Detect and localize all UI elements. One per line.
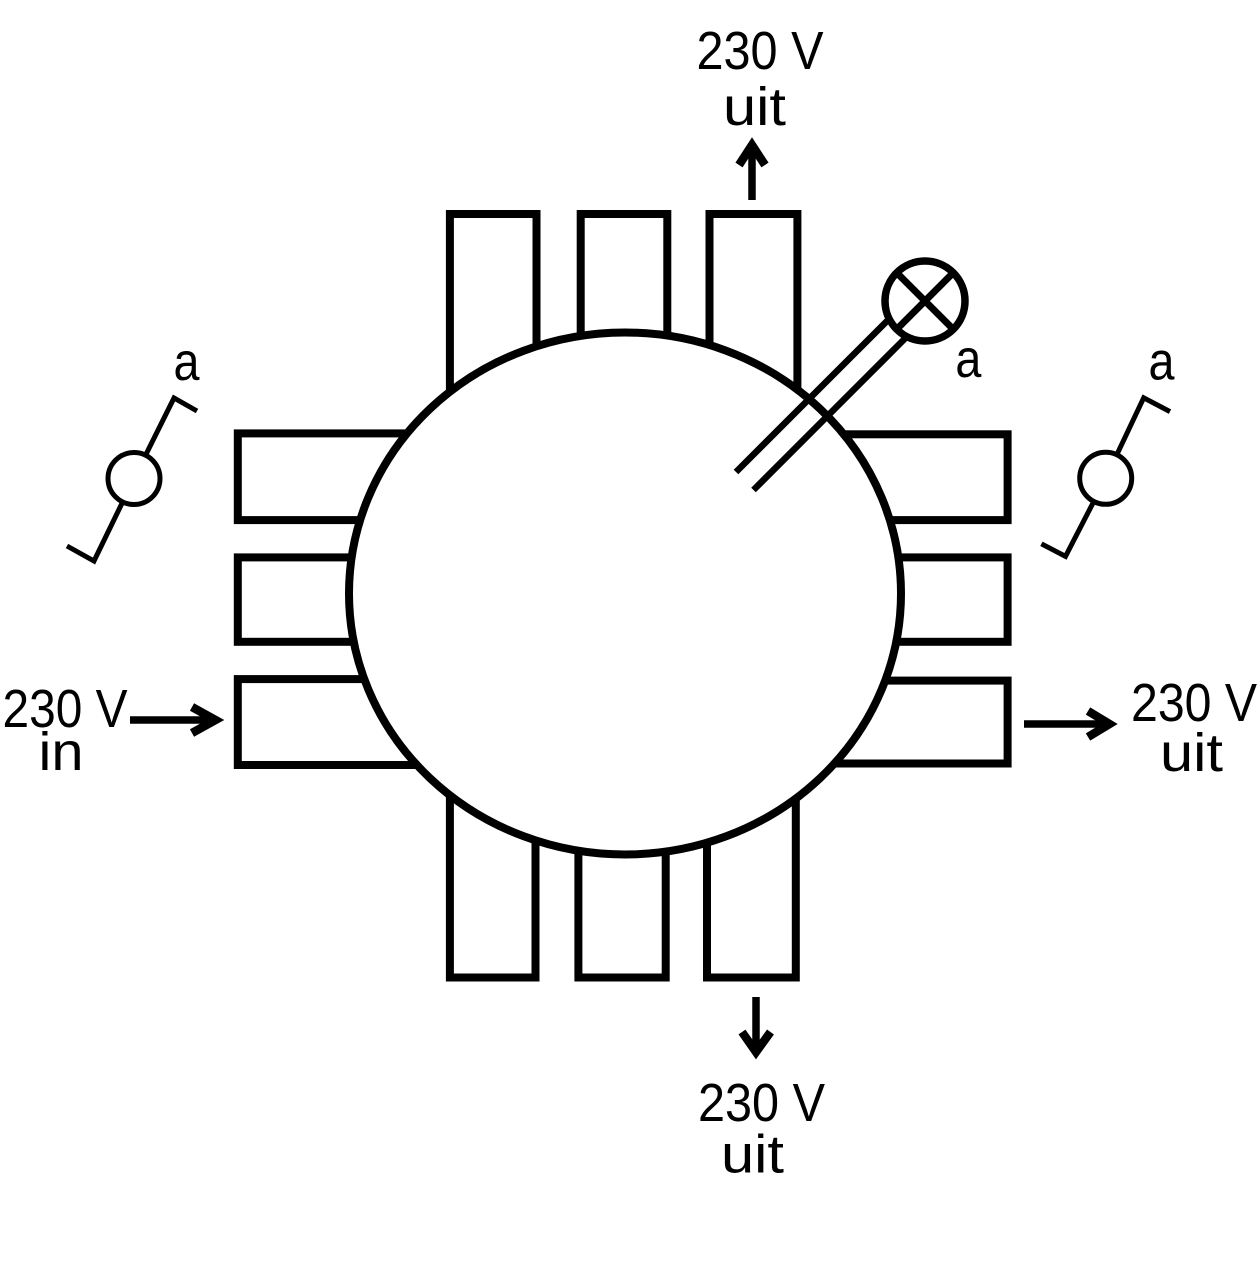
svg-text:a: a <box>1149 331 1176 391</box>
svg-text:uit: uit <box>723 77 786 137</box>
svg-text:230 V: 230 V <box>697 21 824 81</box>
svg-text:a: a <box>174 332 201 392</box>
svg-text:uit: uit <box>1160 723 1223 783</box>
svg-text:a: a <box>955 329 982 389</box>
svg-text:in: in <box>39 722 84 782</box>
svg-text:uit: uit <box>721 1125 784 1185</box>
